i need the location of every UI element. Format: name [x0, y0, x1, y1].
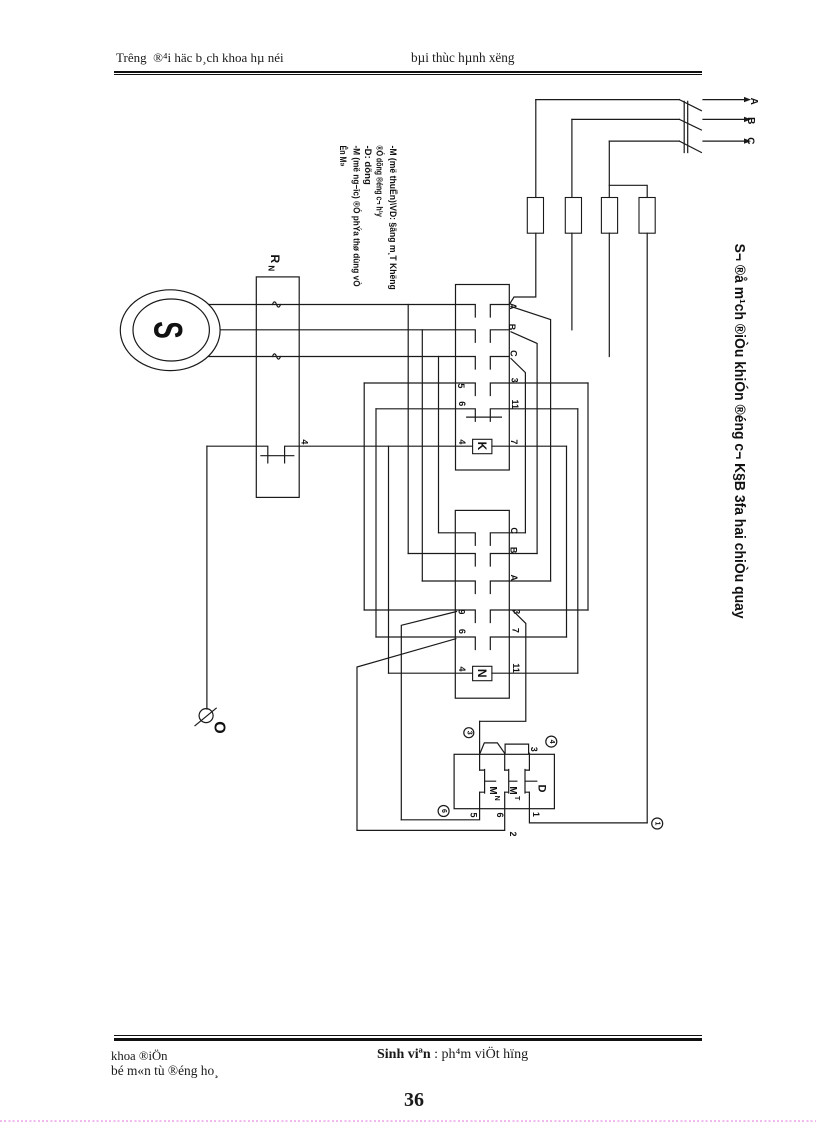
heater squiggle wire3 — [273, 354, 281, 359]
svg-text:1: 1 — [654, 822, 661, 826]
svg-text:7: 7 — [509, 439, 519, 444]
thermal relay RN box — [256, 277, 299, 498]
contact N aux 9-3 — [364, 610, 588, 623]
header left text — [116, 50, 284, 66]
wire K6 drop to N7 — [375, 409, 377, 637]
circled 1 — [652, 818, 663, 829]
svg-text:S¬ ®å m¹ch ®iÒu khiÓn ®éng c¬: S¬ ®å m¹ch ®iÒu khiÓn ®éng c¬ K§B 3fa ha… — [731, 244, 749, 619]
coil N right wire 11 — [492, 672, 578, 674]
wire phase A horizontal — [536, 99, 680, 101]
contact N-B — [408, 554, 537, 567]
contactor N enclosure — [455, 510, 509, 698]
svg-text:D: D — [536, 785, 548, 793]
wire motor3 drop to N-C — [438, 357, 440, 533]
wire N9 diag to MN bottom — [401, 612, 456, 820]
svg-text:3: 3 — [529, 747, 539, 752]
contact K aux NC 6-11 — [376, 409, 578, 422]
coil K right wire 7 — [492, 445, 567, 447]
svg-text:T: T — [513, 796, 520, 801]
svg-text:6: 6 — [495, 812, 505, 817]
svg-text:3: 3 — [510, 378, 520, 383]
svg-text:9: 9 — [456, 609, 466, 614]
RN NC contact bridge — [261, 455, 294, 457]
contactor K enclosure — [456, 285, 510, 471]
footer dept line1 — [111, 1049, 168, 1064]
svg-text:6: 6 — [440, 809, 447, 813]
svg-text:-D: dõng: -D: dõng — [363, 146, 373, 185]
wire source A with arrow — [703, 99, 745, 101]
svg-text:R: R — [268, 254, 282, 263]
contact K-C — [208, 357, 509, 370]
button box — [454, 754, 554, 808]
contact N-A — [422, 581, 550, 594]
footer dept line2 — [111, 1063, 219, 1079]
button MT (forward start) — [505, 770, 517, 794]
wire N7 diag to MT bottom — [357, 639, 456, 831]
fuse F2 — [565, 198, 581, 234]
coil K left wire 4 — [389, 445, 473, 447]
button MN (reverse start) — [480, 770, 496, 794]
wire source C with arrow — [703, 140, 745, 142]
svg-text:7: 7 — [510, 628, 520, 633]
wire D bottom to supply — [529, 792, 647, 823]
svg-text:6: 6 — [457, 629, 467, 634]
wire fuse F3 out to contact KC — [608, 233, 610, 356]
switch Q1 linkage bar — [684, 101, 688, 152]
svg-text:A: A — [748, 98, 759, 105]
contact K aux 5-3 — [364, 383, 588, 396]
svg-text:Ên M»: Ên M» — [338, 146, 349, 167]
svg-text:4: 4 — [457, 439, 467, 444]
svg-text:-M (më thuËn)\VD: §ãng m¸T Khë: -M (më thuËn)\VD: §ãng m¸T Khëng — [388, 146, 398, 290]
fuse F4 — [639, 198, 655, 234]
wire N3 diag down — [480, 611, 526, 722]
contact K-A — [209, 305, 510, 318]
footer rule thick — [114, 1038, 702, 1041]
svg-text:4: 4 — [457, 666, 467, 671]
svg-text:C: C — [509, 527, 519, 534]
hump MN-MT — [480, 743, 505, 753]
svg-text:B: B — [509, 547, 519, 554]
svg-text:4: 4 — [548, 740, 555, 744]
switch Q1 blade A — [679, 100, 701, 111]
svg-text:N: N — [475, 669, 489, 678]
heater squiggle wire1 — [273, 302, 281, 307]
fuse F3 — [601, 198, 617, 234]
svg-text:B: B — [507, 324, 517, 331]
page number — [404, 1089, 424, 1112]
wire fuse F4 out control line 1 — [646, 233, 648, 823]
svg-text:O: O — [211, 721, 228, 733]
svg-text:®Ó dõng ®éng c¬ h¹y: ®Ó dõng ®éng c¬ h¹y — [375, 146, 386, 217]
contact N-C — [439, 533, 526, 546]
pink dotted bottom line — [0, 1120, 816, 1122]
wire K5 drop to N9 — [363, 383, 365, 610]
coil K box — [473, 439, 492, 453]
switch Q1 blade C — [679, 141, 701, 152]
footer student — [377, 1047, 528, 1063]
svg-text:11: 11 — [511, 663, 521, 673]
hump MT-D — [505, 744, 528, 753]
motor M inner — [133, 299, 209, 361]
svg-text:K: K — [475, 442, 489, 451]
wire 4 drop to N coil — [388, 446, 390, 673]
circled 3 — [464, 728, 474, 738]
coil N box — [473, 666, 492, 680]
motor M outer — [120, 290, 220, 371]
svg-text:2: 2 — [508, 831, 518, 836]
coil N left wire 4 — [389, 672, 473, 674]
header rule thin — [114, 74, 702, 75]
svg-text:5: 5 — [468, 812, 478, 817]
header right text — [411, 50, 514, 66]
wire tap C to control fuse — [609, 185, 647, 197]
switch Q1 blade B — [679, 119, 701, 130]
wire K3 down to N9 — [587, 383, 589, 610]
svg-text:N: N — [493, 796, 500, 801]
svg-text:3: 3 — [465, 731, 472, 735]
wire MT top — [504, 753, 506, 770]
wire MT bottom — [357, 792, 505, 830]
wire phase B horizontal — [572, 118, 680, 120]
fuse F1 — [527, 198, 543, 234]
wire source B with arrow — [703, 118, 745, 120]
button D (stop) — [525, 770, 537, 794]
wire O drop — [206, 446, 208, 709]
wire MN bottom — [401, 792, 479, 820]
circled 6 — [438, 806, 449, 817]
wire K-A to N-A diagonal — [511, 307, 551, 582]
wire K-B to N-B diagonal — [511, 332, 537, 554]
svg-text:-M (më ng−îc) ®Ó phÝa thø dùng: -M (më ng−îc) ®Ó phÝa thø dùng vÒ — [352, 146, 363, 287]
wire fuse F2 out to contact KB — [571, 233, 573, 330]
wire B drop to fuse — [571, 119, 573, 197]
svg-text:M: M — [507, 786, 518, 794]
wire K11 down to N coil — [577, 409, 579, 673]
circled 4 — [546, 736, 557, 747]
svg-text:A: A — [509, 575, 519, 582]
wire 4 from terminal O — [207, 446, 389, 463]
svg-text:C: C — [744, 137, 755, 144]
wire A drop to fuse — [535, 100, 537, 198]
wire motor1 drop to N-B — [407, 305, 409, 554]
contact K-B — [220, 330, 509, 343]
svg-text:B: B — [745, 117, 756, 124]
node 3 riser to MN — [479, 721, 481, 770]
svg-text:4: 4 — [300, 439, 310, 444]
wire C drop to fuse — [608, 141, 610, 197]
wire D top — [528, 753, 530, 770]
svg-text:N: N — [266, 265, 275, 271]
svg-text:C: C — [508, 350, 518, 357]
wire fuse F1 out to contact KA — [509, 233, 536, 304]
svg-text:11: 11 — [510, 399, 520, 409]
wire motor2 drop to N-A — [421, 330, 423, 581]
wire K-C to N-C diagonal — [511, 359, 525, 533]
svg-text:5: 5 — [456, 383, 466, 388]
footer rule thin — [114, 1035, 702, 1036]
svg-text:1: 1 — [531, 812, 541, 817]
terminal O slash — [195, 708, 216, 726]
contact N 6-7 — [376, 637, 567, 650]
terminal O circle — [199, 709, 213, 723]
svg-text:6: 6 — [457, 401, 467, 406]
svg-text:M: M — [487, 786, 498, 794]
svg-text:S: S — [146, 321, 190, 339]
wire phase C horizontal — [609, 140, 679, 142]
wire K7 down to N7 — [566, 446, 568, 637]
header rule thick — [114, 71, 702, 74]
